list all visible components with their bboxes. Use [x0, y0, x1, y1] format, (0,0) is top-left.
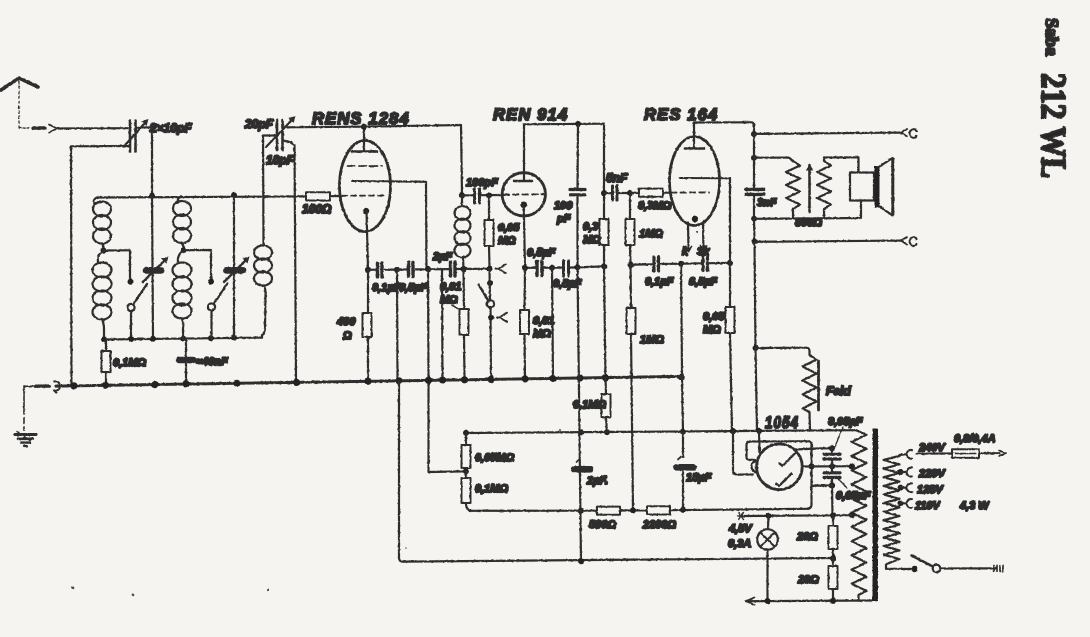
- node x466 y433: [463, 430, 469, 436]
- node x607 y432: [604, 429, 610, 435]
- resistor 1MOhm grid leak RES: [626, 193, 635, 265]
- svg-text:0,01: 0,01: [533, 315, 554, 327]
- transformer output secondary: [817, 157, 859, 218]
- node 100pF bottom: [575, 264, 581, 270]
- node bus x74: [70, 382, 77, 389]
- node screen decoupling: [425, 266, 431, 272]
- svg-text:110V: 110V: [915, 500, 942, 512]
- svg-text:MΩ: MΩ: [583, 234, 601, 246]
- tube RENS1284 screen line: [352, 180, 390, 182]
- tube 1054 cathode nipple: [752, 461, 758, 472]
- label 0,05uF lower pointer: [836, 479, 871, 503]
- wire 2200 to cathode rail: [670, 509, 809, 510]
- terminal output 2: [901, 237, 917, 246]
- node x733 y431: [730, 428, 736, 434]
- wire to output terminal 2: [755, 241, 902, 242]
- capacitor 0,5uF left REN cathode: [525, 262, 552, 276]
- pin 3k lead: [702, 223, 705, 257]
- wire antenna input: [19, 125, 128, 133]
- resistor 0,05MOhm grid leak: [485, 195, 494, 266]
- antenna: [1, 78, 38, 127]
- capacitor 100pF grid REN914: [462, 189, 501, 203]
- node L2 tap: [181, 247, 187, 253]
- capacitor 2uF: [428, 262, 463, 276]
- wire heater bottom y601: [746, 598, 872, 605]
- node bus x428: [425, 377, 432, 384]
- node tapbus L2: [180, 336, 186, 342]
- tube RENS1284 envelope: [340, 141, 391, 232]
- svg-text:0,1µF: 0,1µF: [645, 276, 674, 288]
- wire divider feed: [831, 485, 834, 515]
- resistor 0,1MOhm AVC: [102, 340, 111, 386]
- tube RES164 grid dashed: [671, 191, 709, 193]
- svg-text:MΩ: MΩ: [533, 328, 551, 340]
- tube RENS1284 control grid dashed: [342, 195, 386, 197]
- coil L1 lower winding: [93, 251, 112, 340]
- resistor 0,05MOhm screen RES: [726, 263, 735, 431]
- svg-text:Feld: Feld: [826, 384, 851, 398]
- wire 1054 left cathode loop: [733, 431, 753, 475]
- capacitor 0,5uF: [397, 263, 428, 277]
- node x604: [601, 263, 607, 269]
- wire bias row y510: [472, 510, 597, 512]
- switch S2 wave change: [208, 279, 228, 339]
- svg-text:20Ω: 20Ω: [797, 574, 819, 586]
- tube REN914 envelope: [502, 173, 545, 216]
- tube RENS1284 top cap: [352, 128, 377, 152]
- svg-text:2µF: 2µF: [432, 251, 452, 263]
- node output bottom: [752, 239, 758, 245]
- node REN cathode rail: [522, 265, 528, 271]
- node mid cap: [549, 265, 555, 271]
- svg-text:212 WL: 212 WL: [1034, 73, 1073, 178]
- node tapbus S1: [128, 336, 134, 342]
- wire cap bottom to heater rail: [812, 484, 833, 487]
- svg-text:100pF: 100pF: [466, 177, 498, 189]
- switch S1 wave change: [127, 279, 147, 340]
- resistor 0,1MOhm detector plate: [602, 378, 611, 432]
- wire main bus: [56, 376, 682, 386]
- wire tap bus band coils: [104, 338, 262, 340]
- coil L2 upper winding: [173, 197, 191, 250]
- capacitor 15uF electrolytic: [677, 432, 694, 510]
- wire RES screen to rail: [729, 178, 731, 263]
- resistor 1MOhm AF return: [627, 265, 636, 511]
- transformer mains primary: [884, 456, 900, 569]
- wire trimmer mid tap to coil L3: [263, 136, 276, 246]
- capacitor 20pF/10pF trimmer: [266, 116, 296, 150]
- capacitor 0,1uF cathode: [368, 263, 397, 277]
- wire x604 to bus and 0,1M: [604, 266, 606, 379]
- svg-text:220V: 220V: [918, 468, 946, 480]
- svg-text:0,1MΩ: 0,1MΩ: [573, 399, 606, 411]
- wire cap row to switch S3: [464, 268, 488, 270]
- node bus x105: [102, 382, 109, 389]
- wire x681 hook to bus: [678, 264, 682, 378]
- wire secondary bottom: [754, 201, 861, 219]
- label 0,05 MOhm screen: [703, 311, 725, 336]
- svg-text:0,3A: 0,3A: [728, 538, 751, 550]
- node cap mid: [829, 463, 835, 469]
- node cathode cap row: [394, 267, 400, 273]
- node x730: [727, 260, 733, 266]
- node AF rail: [628, 262, 634, 268]
- svg-text:k: k: [682, 246, 689, 258]
- transformer output core: [808, 165, 811, 212]
- node tapbus Cvar2: [231, 335, 237, 341]
- wire bus left drop x399: [399, 381, 403, 562]
- label 0,01 MOhm: [533, 315, 554, 340]
- capacitor 5nF coupling: [604, 186, 630, 200]
- tap 125V: [901, 483, 913, 492]
- node x681: [678, 261, 684, 267]
- capacitor C-var2 tuning: [224, 196, 250, 338]
- node RENS anode top: [361, 124, 367, 130]
- wire 1054 right to divider: [803, 465, 852, 467]
- transformer mains core: [873, 429, 879, 602]
- tube REN914 grid dashed: [504, 193, 545, 195]
- wire trimmer right to grid node: [137, 127, 153, 195]
- tube RES164 top cap: [685, 123, 704, 149]
- node cap bottom: [829, 482, 835, 488]
- node x759 y430: [756, 428, 762, 434]
- capacitor 3nF tone: [746, 189, 764, 218]
- node x581 y561: [578, 558, 584, 564]
- node bus x553: [549, 375, 556, 382]
- coil L2 lower winding: [173, 250, 192, 339]
- wire 2uF left to bus: [441, 269, 444, 381]
- node divider tap2: [849, 512, 855, 518]
- node bus x442: [439, 377, 446, 384]
- wire HT row y432: [466, 430, 856, 433]
- node heater x833: [830, 512, 836, 518]
- switch S3 detector band: [479, 264, 508, 381]
- node primary bottom: [751, 216, 757, 222]
- svg-text:2200Ω: 2200Ω: [642, 519, 676, 531]
- node output top: [751, 131, 757, 137]
- resistor divider zigzag: [852, 430, 867, 601]
- wire trimmer top to RENS anode wire: [284, 126, 365, 129]
- node cathode junction: [365, 267, 371, 273]
- resistor 0,3MOhm anode: [600, 124, 609, 267]
- tap 110V: [901, 499, 913, 508]
- svg-text:0,5µF: 0,5µF: [689, 276, 718, 288]
- tube RENS1284 grid2 dashed: [348, 165, 382, 167]
- capacitor 0,05uF lower: [824, 466, 840, 485]
- svg-text:0,05MΩ: 0,05MΩ: [475, 452, 515, 464]
- label 400 Ohm: [336, 316, 356, 342]
- svg-text:0,5µF: 0,5µF: [527, 247, 556, 259]
- node grid RES: [627, 190, 633, 196]
- resistor 0,1MOhm dropper: [462, 471, 473, 511]
- svg-text:0,1MΩ: 0,1MΩ: [475, 483, 508, 495]
- svg-text:1054: 1054: [765, 414, 799, 432]
- svg-text:0,3MΩ: 0,3MΩ: [638, 200, 671, 212]
- svg-text:2×10pF: 2×10pF: [149, 121, 192, 135]
- resistor 0,01MOhm osc grid: [460, 269, 469, 381]
- node bus x491: [487, 376, 494, 383]
- svg-text:20Ω: 20Ω: [796, 531, 818, 543]
- node bus x465: [461, 376, 468, 383]
- node REN grid coil: [459, 192, 465, 198]
- scan smudge top edge: [72, 231, 699, 596]
- svg-text:1MΩ: 1MΩ: [640, 334, 664, 346]
- capacitor 100pF anode: [570, 124, 585, 267]
- capacitor 0,05uF upper: [824, 448, 840, 466]
- wire AF rail caps: [631, 263, 653, 266]
- wire 1054 heater loop: [747, 441, 812, 508]
- resistor 0,01MOhm REN cathode: [520, 268, 529, 380]
- svg-text:pF: pF: [556, 213, 571, 225]
- wire output node 2: [753, 219, 756, 242]
- star mark: [738, 513, 744, 520]
- resistor 400 Ohm cathode bias: [363, 270, 372, 382]
- wire bottom return: [403, 558, 833, 562]
- wire 1054 anode wire right: [795, 448, 833, 449]
- svg-text:10pF: 10pF: [266, 153, 295, 167]
- ground symbol: [15, 387, 36, 446]
- node divider tap1: [849, 463, 855, 469]
- svg-text:0,05: 0,05: [703, 311, 725, 323]
- resistor Feld field coil: [756, 348, 819, 431]
- svg-text:100: 100: [554, 200, 573, 212]
- svg-text:MΩ: MΩ: [440, 294, 458, 306]
- node lamp bottom: [765, 598, 771, 604]
- tube 1054 anode 2: [776, 474, 792, 487]
- coil L4 detector grid: [455, 195, 471, 269]
- label 0,05MOhm: [498, 222, 520, 247]
- wire to output terminal 1: [754, 133, 901, 134]
- tube RES164 screen line: [680, 177, 730, 179]
- resistor 2200 Ohm: [647, 506, 670, 514]
- svg-text:125V: 125V: [917, 484, 944, 496]
- node primary top: [751, 155, 757, 161]
- tap 220V: [901, 468, 913, 477]
- svg-text:5nF: 5nF: [606, 171, 628, 185]
- label 0,05uF upper pointer: [828, 416, 863, 450]
- node bus x155: [151, 381, 158, 388]
- tap 240V: [900, 450, 913, 459]
- svg-text:4,3 W: 4,3 W: [959, 500, 990, 512]
- node x580 y432: [578, 429, 584, 435]
- svg-text:240V: 240V: [918, 442, 946, 454]
- node bus x237: [233, 380, 240, 387]
- coil L1 upper antenna winding: [93, 198, 111, 250]
- wire 500 to 2200: [620, 509, 647, 511]
- svg-text:0,05µF: 0,05µF: [828, 416, 863, 428]
- resistor 0,3MOhm grid stopper RES: [630, 189, 671, 197]
- tube REN914 cathode: [520, 202, 527, 268]
- coil L3 oscillator: [254, 246, 272, 338]
- wire L1 tap to switch S1: [104, 250, 131, 280]
- resistor 100 Ohm grid stopper: [306, 192, 342, 200]
- wire 1054 anode lead top: [758, 431, 761, 452]
- speaker box: [850, 173, 874, 201]
- node coupling: [601, 190, 607, 196]
- svg-text:REN 914: REN 914: [493, 106, 568, 124]
- wire B+ down to field: [755, 242, 756, 348]
- label 0,01MOhm pointer: [440, 281, 461, 310]
- fuse 0,8/0,4A: [917, 449, 1007, 458]
- lamp dial 4,5V: [757, 516, 778, 601]
- speaker horn: [880, 158, 893, 216]
- svg-text:MΩ: MΩ: [703, 324, 721, 336]
- svg-text:RES 164: RES 164: [644, 106, 718, 124]
- node bus x186: [182, 381, 189, 388]
- node field tap: [753, 345, 759, 351]
- node x683 y509: [680, 507, 686, 513]
- svg-text:20pF: 20pF: [244, 117, 274, 131]
- node cap top: [829, 445, 835, 451]
- resistor 20 Ohm lower: [829, 558, 838, 600]
- node x581 y510: [578, 508, 584, 514]
- node x833 y601: [830, 598, 836, 604]
- resistor 20 Ohm upper: [829, 515, 838, 558]
- terminal chassis: [54, 381, 60, 392]
- node x633 y510: [630, 507, 636, 513]
- node x683 y432: [680, 429, 686, 435]
- tube 1054 anode 1: [780, 453, 796, 466]
- svg-text:4,5V: 4,5V: [728, 523, 753, 535]
- svg-text:0,5µF: 0,5µF: [399, 282, 428, 294]
- transformer output primary: [754, 158, 800, 219]
- tube RENS1284 cathode: [363, 208, 369, 270]
- svg-text:Ω: Ω: [342, 330, 352, 342]
- node bus x368: [364, 378, 371, 385]
- svg-text:1MΩ: 1MΩ: [639, 228, 663, 240]
- svg-text:0,3: 0,3: [583, 221, 598, 233]
- node cap row coil bottom: [460, 266, 466, 272]
- svg-text:0,01: 0,01: [440, 281, 461, 293]
- node lamp top: [766, 513, 772, 519]
- node L1 tap: [101, 248, 107, 254]
- wire RES anode to output: [694, 122, 754, 134]
- node REN grid leak: [486, 192, 492, 198]
- capacitor 2x10pF trimmer: [125, 119, 149, 152]
- tube RES164 cathode: [692, 216, 698, 222]
- wire heater row y515: [743, 514, 852, 517]
- wire to anode resistor bottom: [578, 266, 605, 267]
- wire RENS anode to REN grid node: [364, 125, 462, 195]
- capacitor 40nF: [179, 339, 193, 385]
- wire field tap down: [756, 348, 758, 430]
- tube 1054 envelope: [757, 444, 803, 490]
- speaker magnet bar: [875, 166, 880, 208]
- svg-text:3k: 3k: [697, 246, 710, 258]
- svg-text:0,8/0,4A: 0,8/0,4A: [954, 433, 996, 445]
- terminal output 1: [901, 129, 917, 138]
- capacitor C-var1 tuning: [143, 196, 169, 339]
- node x466 y471: [463, 468, 469, 474]
- wire L2 tap to switch S2: [184, 250, 212, 280]
- tube REN914 anode: [514, 173, 532, 181]
- wire screen rail to bus x428: [428, 269, 464, 472]
- node x811 y466: [808, 463, 814, 469]
- node tapbus L1: [101, 336, 107, 342]
- svg-text:400: 400: [336, 316, 356, 328]
- node tapbus Cvar1: [150, 336, 156, 342]
- svg-text:0,05: 0,05: [498, 222, 520, 234]
- svg-text:≈40nF: ≈40nF: [196, 356, 228, 368]
- wire top node down: [753, 134, 755, 188]
- svg-text:Saba: Saba: [1042, 18, 1062, 56]
- wire 10pF bottom down to main bus: [284, 141, 297, 382]
- resistor 0,05MOhm dropper: [462, 433, 471, 471]
- wire node to bus x552: [552, 268, 553, 380]
- svg-text:3nF: 3nF: [757, 197, 777, 209]
- node bus x296: [293, 379, 300, 386]
- node anode RC: [575, 121, 581, 127]
- pin k lead: [687, 223, 690, 252]
- wire trimmer bottom to ground line: [71, 146, 130, 386]
- node grid1-varcap2: [231, 192, 237, 198]
- wire 100pF rail to lower: [578, 267, 582, 561]
- switch mains: [886, 556, 1003, 573]
- svg-text:100Ω: 100Ω: [302, 202, 332, 216]
- node bus x399: [395, 377, 402, 384]
- resistor 500 Ohm: [597, 507, 620, 515]
- capacitor 0,5uF right: [552, 261, 578, 276]
- node bus x525: [521, 375, 528, 382]
- capacitor 2uF electrolytic: [574, 459, 590, 469]
- capacitor 0,1uF output grid: [654, 257, 681, 271]
- label 0,3 MOhm: [583, 221, 601, 246]
- wire cathode rail to bus x397: [396, 270, 399, 382]
- tube RES164 envelope: [670, 137, 720, 226]
- svg-text:0,1MΩ: 0,1MΩ: [113, 357, 146, 369]
- label 100 pF: [554, 200, 573, 225]
- node bus x605: [602, 374, 609, 381]
- wire RENS screen to decoupling: [390, 181, 427, 269]
- wire REN anode top: [524, 124, 604, 173]
- svg-text:500Ω: 500Ω: [589, 519, 616, 531]
- node tapbus S2: [208, 335, 214, 341]
- node x833 y558: [830, 555, 836, 561]
- wire ground dashes: [24, 385, 49, 387]
- svg-text:2µF.: 2µF.: [586, 475, 608, 487]
- node grid1-trimmer: [149, 193, 155, 199]
- svg-text:15µF: 15µF: [686, 472, 712, 484]
- node bus x580: [576, 374, 583, 381]
- svg-text:MΩ: MΩ: [498, 235, 516, 247]
- wire grid line band1: [97, 196, 306, 197]
- capacitor 0,5uF output: [681, 257, 730, 271]
